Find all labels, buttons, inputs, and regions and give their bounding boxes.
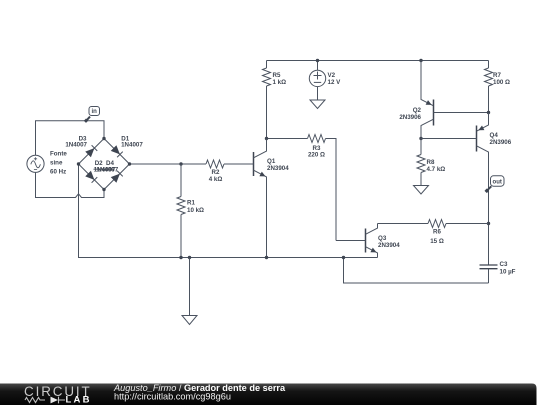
svg-text:R6: R6: [433, 228, 441, 235]
ground below R8: [414, 186, 429, 195]
svg-text:4.7 kΩ: 4.7 kΩ: [427, 166, 446, 173]
resistor R1: [177, 164, 204, 258]
wire top rail V+: [267, 60, 489, 62]
svg-text:220 Ω: 220 Ω: [308, 152, 325, 159]
svg-text:R1: R1: [187, 200, 195, 207]
svg-text:in: in: [92, 109, 98, 115]
node R6 / C3 / Q4 collector: [487, 222, 490, 225]
transistor Q3: [336, 224, 400, 258]
svg-text:2N3906: 2N3906: [490, 139, 512, 146]
svg-text:1N4007: 1N4007: [65, 141, 87, 148]
svg-text:100 Ω: 100 Ω: [493, 79, 510, 86]
node bridge left: [77, 162, 80, 165]
svg-text:Q3: Q3: [378, 235, 387, 242]
node R1 bottom: [179, 256, 182, 259]
transistor Q1: [254, 139, 290, 258]
svg-text:Q2: Q2: [413, 107, 422, 114]
svg-text:Q1: Q1: [267, 158, 276, 165]
svg-text:12 V: 12 V: [328, 79, 342, 86]
node V2 top rail: [316, 59, 319, 62]
out flag: [485, 176, 505, 193]
diode D1: [111, 135, 144, 157]
node Q2 emitter on top rail: [419, 59, 422, 62]
node Q2 collector / Q4 base / R8: [419, 137, 422, 140]
bridge diamond wires: [79, 139, 130, 190]
resistor R6: [378, 220, 489, 246]
logo diode: [51, 397, 59, 404]
footer bar: [0, 384, 537, 405]
node bridge top: [102, 137, 105, 140]
svg-text:1N4007: 1N4007: [97, 166, 119, 173]
wire bottom mid rail: [79, 164, 378, 258]
wire Fonte top to bridge top: [36, 121, 105, 156]
svg-text:out: out: [493, 180, 502, 186]
resistor R7: [485, 61, 511, 113]
svg-text:LAB: LAB: [66, 395, 92, 405]
svg-text:1N4007: 1N4007: [121, 141, 143, 148]
svg-text:10 kΩ: 10 kΩ: [187, 207, 204, 214]
node R5 / Q1 collector / R3: [265, 137, 268, 140]
svg-text:http://circuitlab.com/cg98g6u: http://circuitlab.com/cg98g6u: [114, 391, 231, 401]
node Q1 emitter rail: [265, 256, 268, 259]
diode D4: [111, 171, 123, 183]
resistor R3: [267, 135, 337, 241]
svg-text:Fonte: Fonte: [50, 151, 67, 158]
diode D3: [65, 135, 97, 157]
wire bridge to R2 to Q1 base: [130, 163, 207, 165]
svg-text:10 µF: 10 µF: [500, 269, 516, 276]
voltage source V2: [309, 61, 341, 101]
svg-text:1 kΩ: 1 kΩ: [273, 79, 287, 86]
ground below V2: [310, 100, 325, 109]
node R7 / Q2 base / Q4 emitter: [487, 111, 490, 114]
node R1 top: [179, 162, 182, 165]
voltage source V1 Fonte: [27, 151, 67, 176]
resistor R8: [417, 139, 445, 186]
svg-text:15 Ω: 15 Ω: [430, 238, 444, 245]
transistor Q4: [421, 113, 512, 266]
capacitor C3: [480, 261, 516, 283]
labels D2 D4: [94, 160, 119, 173]
svg-text:R2: R2: [212, 169, 220, 176]
svg-text:sine: sine: [50, 160, 63, 167]
node drop to bottom rail: [342, 256, 345, 259]
svg-text:2N3904: 2N3904: [267, 165, 289, 172]
svg-text:2N3906: 2N3906: [399, 114, 421, 121]
node bridge right: [128, 162, 131, 165]
ground main: [182, 258, 197, 325]
transistor Q2: [399, 61, 488, 139]
resistor R2: [206, 160, 254, 183]
svg-text:2N3904: 2N3904: [378, 242, 400, 249]
wire bottom right rail: [344, 258, 489, 284]
logo zigzag resistor: [25, 398, 45, 403]
wire Fonte bottom to bridge bottom with hop: [36, 172, 105, 197]
node bridge bottom: [102, 188, 105, 191]
svg-text:60 Hz: 60 Hz: [50, 169, 66, 176]
svg-text:Q4: Q4: [490, 132, 499, 139]
svg-text:4 kΩ: 4 kΩ: [209, 176, 223, 183]
in flag: [84, 107, 100, 123]
node ground tap: [188, 256, 191, 259]
diode D2: [85, 171, 97, 183]
resistor R5: [263, 61, 287, 139]
svg-text:C3: C3: [500, 261, 508, 268]
